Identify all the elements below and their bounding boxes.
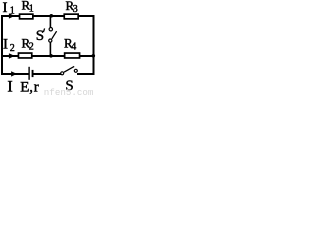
resistor R3: [63, 13, 79, 19]
svg-text:3: 3: [73, 4, 78, 15]
svg-text:4: 4: [71, 41, 76, 52]
node junction middle: [49, 54, 53, 58]
svg-text:I: I: [3, 0, 8, 16]
switch S: [61, 66, 78, 74]
svg-text:E: E: [20, 79, 29, 95]
svg-text:1: 1: [10, 5, 15, 16]
svg-text:1: 1: [29, 4, 34, 15]
node junction middle-right: [92, 54, 96, 58]
svg-text:I: I: [7, 78, 12, 95]
svg-text:r: r: [34, 79, 39, 95]
wire bottom mid segment: [33, 73, 61, 75]
wire top horizontal: [1, 15, 95, 17]
battery E,r: [28, 67, 33, 80]
svg-text:I: I: [3, 37, 8, 53]
resistor R2: [18, 52, 33, 59]
wire bottom left segment: [1, 73, 29, 75]
arrow I2 current: [9, 53, 15, 58]
svg-text:S: S: [36, 28, 44, 44]
arrow I1 current: [9, 13, 15, 18]
switch S': [49, 17, 57, 55]
wire right vertical: [93, 15, 95, 75]
svg-text:2: 2: [29, 42, 34, 53]
svg-text:2: 2: [10, 43, 15, 54]
resistor R1: [19, 13, 34, 19]
arrow I current: [11, 71, 17, 76]
resistor R4: [64, 52, 81, 59]
wire bottom right segment: [77, 73, 95, 75]
node junction top: [50, 14, 54, 18]
wire middle horizontal: [1, 55, 94, 57]
svg-text:nfen5.com: nfen5.com: [44, 87, 94, 96]
wire left vertical: [1, 15, 3, 75]
svg-text:,: ,: [29, 79, 33, 95]
